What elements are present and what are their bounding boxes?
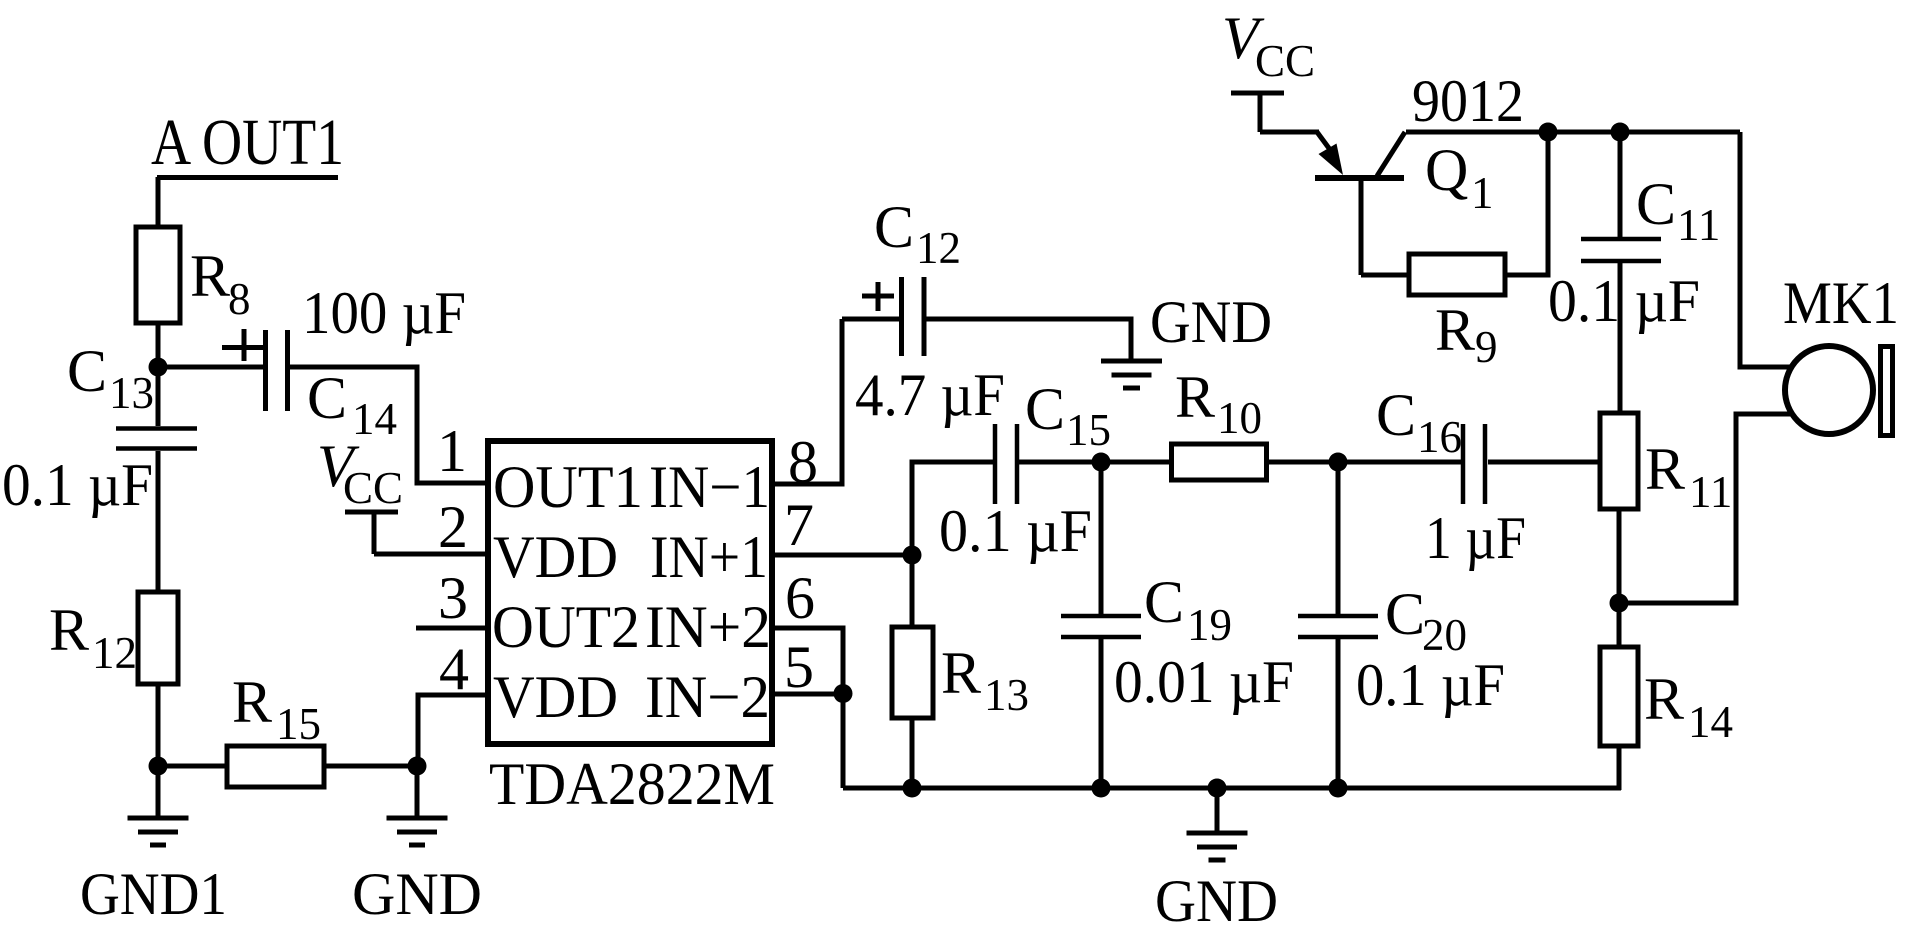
transistor Q1 xyxy=(1315,68,1524,275)
svg-text:12: 12 xyxy=(916,223,961,273)
svg-text:C: C xyxy=(1025,376,1065,442)
wire xyxy=(1101,460,1171,465)
wire xyxy=(910,555,915,627)
svg-text:C: C xyxy=(1385,581,1425,647)
svg-text:4.7 µF: 4.7 µF xyxy=(855,362,1005,428)
svg-text:R: R xyxy=(941,640,981,706)
junction node xyxy=(1092,453,1111,472)
wire xyxy=(1505,132,1548,275)
wire xyxy=(156,684,161,766)
wire xyxy=(772,692,843,697)
svg-text:0.01 µF: 0.01 µF xyxy=(1114,649,1294,715)
svg-text:16: 16 xyxy=(1417,412,1462,462)
wire xyxy=(1267,460,1338,465)
svg-text:R: R xyxy=(232,669,272,735)
power VCC (top) xyxy=(1222,5,1315,132)
wire xyxy=(158,764,227,769)
svg-text:4: 4 xyxy=(439,636,469,702)
svg-text:12: 12 xyxy=(92,628,137,678)
svg-text:0.1 µF: 0.1 µF xyxy=(1548,268,1700,334)
wire xyxy=(1019,460,1101,465)
wire xyxy=(156,323,161,367)
junction node xyxy=(149,358,168,377)
svg-text:19: 19 xyxy=(1187,600,1232,650)
capacitor C13 xyxy=(2,338,197,518)
svg-text:CC: CC xyxy=(343,463,403,513)
capacitor C12 xyxy=(855,194,1005,428)
pin 3 stub xyxy=(416,626,488,631)
svg-text:VDD: VDD xyxy=(493,524,618,590)
svg-text:15: 15 xyxy=(1066,405,1111,455)
svg-text:1: 1 xyxy=(1471,168,1494,218)
svg-text:OUT1: OUT1 xyxy=(493,454,643,520)
junction node xyxy=(1208,779,1227,798)
svg-text:OUT2: OUT2 xyxy=(492,594,640,660)
svg-text:R: R xyxy=(1645,436,1685,502)
svg-text:14: 14 xyxy=(352,394,397,444)
resistor R10 xyxy=(1172,364,1267,480)
capacitor C19 xyxy=(1061,462,1294,788)
svg-text:13: 13 xyxy=(109,368,154,418)
wire xyxy=(1260,130,1319,135)
ground GND1 xyxy=(80,766,227,927)
svg-text:IN−2: IN−2 xyxy=(645,664,770,730)
wire xyxy=(1406,130,1740,135)
wire xyxy=(374,552,488,557)
svg-text:GND1: GND1 xyxy=(80,861,227,927)
junction node xyxy=(149,757,168,776)
wire xyxy=(1617,603,1622,647)
wire xyxy=(1361,273,1409,278)
wire xyxy=(772,628,843,788)
svg-text:2: 2 xyxy=(438,494,468,560)
svg-text:VDD: VDD xyxy=(493,664,618,730)
junction node xyxy=(1539,123,1558,142)
wire xyxy=(772,319,842,484)
capacitor C20 xyxy=(1298,462,1505,788)
wire xyxy=(324,764,417,769)
junction node xyxy=(903,546,922,565)
svg-text:IN−1: IN−1 xyxy=(649,454,770,520)
svg-text:15: 15 xyxy=(276,699,321,749)
junction node xyxy=(903,779,922,798)
svg-text:11: 11 xyxy=(1677,200,1720,250)
svg-text:GND: GND xyxy=(352,861,482,927)
svg-text:C: C xyxy=(67,338,107,404)
resistor R15 xyxy=(227,669,324,787)
svg-text:MK1: MK1 xyxy=(1783,270,1899,336)
junction node xyxy=(1329,779,1348,798)
capacitor C14 xyxy=(222,280,466,444)
wire xyxy=(418,695,488,766)
svg-text:7: 7 xyxy=(784,492,814,558)
resistor R13 xyxy=(892,627,1029,720)
svg-text:C: C xyxy=(1376,382,1416,448)
node A OUT1 xyxy=(151,106,344,179)
speaker MK1 xyxy=(1783,270,1899,436)
svg-text:1: 1 xyxy=(437,418,467,484)
svg-text:GND: GND xyxy=(1155,868,1278,934)
svg-text:5: 5 xyxy=(784,634,814,700)
svg-text:C: C xyxy=(874,194,914,260)
svg-text:R: R xyxy=(190,243,230,309)
svg-text:IN+2: IN+2 xyxy=(645,594,771,660)
resistor R8 xyxy=(136,227,251,324)
svg-text:R: R xyxy=(1435,297,1475,363)
wire xyxy=(1617,746,1622,790)
svg-text:R: R xyxy=(1644,666,1684,732)
ground GND (C12) xyxy=(1101,289,1272,388)
wire xyxy=(1617,509,1622,603)
resistor R12 xyxy=(49,592,178,684)
svg-text:9: 9 xyxy=(1475,322,1498,372)
svg-text:11: 11 xyxy=(1689,467,1732,517)
junction node xyxy=(1329,453,1348,472)
wire xyxy=(156,367,161,426)
svg-text:13: 13 xyxy=(984,670,1029,720)
capacitor C15 xyxy=(939,376,1111,564)
wire xyxy=(1619,414,1790,603)
svg-text:R: R xyxy=(49,597,89,663)
wire xyxy=(772,553,912,558)
resistor R11 xyxy=(1600,413,1732,517)
svg-text:1 µF: 1 µF xyxy=(1425,505,1526,571)
resistor R14 xyxy=(1600,647,1733,747)
wire xyxy=(156,451,161,592)
svg-text:14: 14 xyxy=(1688,697,1733,747)
junction node xyxy=(1092,779,1111,798)
wire xyxy=(910,718,915,788)
svg-text:8: 8 xyxy=(228,274,251,324)
svg-text:0.1 µF: 0.1 µF xyxy=(939,498,1092,564)
capacitor C11 xyxy=(1548,132,1720,413)
svg-text:6: 6 xyxy=(785,565,815,631)
resistor R9 xyxy=(1409,254,1505,372)
svg-text:Q: Q xyxy=(1425,137,1468,203)
svg-text:A OUT1: A OUT1 xyxy=(151,106,344,179)
wire xyxy=(1488,460,1600,465)
svg-text:10: 10 xyxy=(1217,393,1262,443)
ground GND xyxy=(352,766,482,927)
junction node xyxy=(1610,594,1629,613)
wire bus xyxy=(843,786,1621,791)
power VCC xyxy=(317,433,403,554)
svg-text:0.1 µF: 0.1 µF xyxy=(2,452,153,518)
wire xyxy=(1740,132,1790,367)
junction node xyxy=(1611,123,1630,142)
junction node xyxy=(834,684,853,703)
svg-text:TDA2822M: TDA2822M xyxy=(489,751,775,817)
ground GND (bus) xyxy=(1155,788,1278,934)
svg-text:GND: GND xyxy=(1150,289,1272,355)
svg-text:C: C xyxy=(1636,171,1676,237)
wire xyxy=(1338,460,1461,465)
wire xyxy=(912,462,993,555)
wire xyxy=(926,319,1131,361)
svg-text:3: 3 xyxy=(438,565,468,631)
svg-text:100 µF: 100 µF xyxy=(302,280,466,346)
svg-text:0.1 µF: 0.1 µF xyxy=(1356,652,1505,718)
wire xyxy=(842,317,899,322)
wire xyxy=(290,367,488,483)
junction node xyxy=(408,757,427,776)
capacitor C16 xyxy=(1376,382,1526,571)
op-amp U1 TDA2822M xyxy=(488,441,775,817)
svg-text:9012: 9012 xyxy=(1412,68,1524,134)
wire xyxy=(156,177,161,227)
wire xyxy=(158,365,263,370)
svg-text:C: C xyxy=(1144,569,1184,635)
svg-text:CC: CC xyxy=(1255,36,1315,86)
svg-text:IN+1: IN+1 xyxy=(650,524,768,590)
svg-text:R: R xyxy=(1175,364,1215,430)
svg-text:C: C xyxy=(307,365,347,431)
